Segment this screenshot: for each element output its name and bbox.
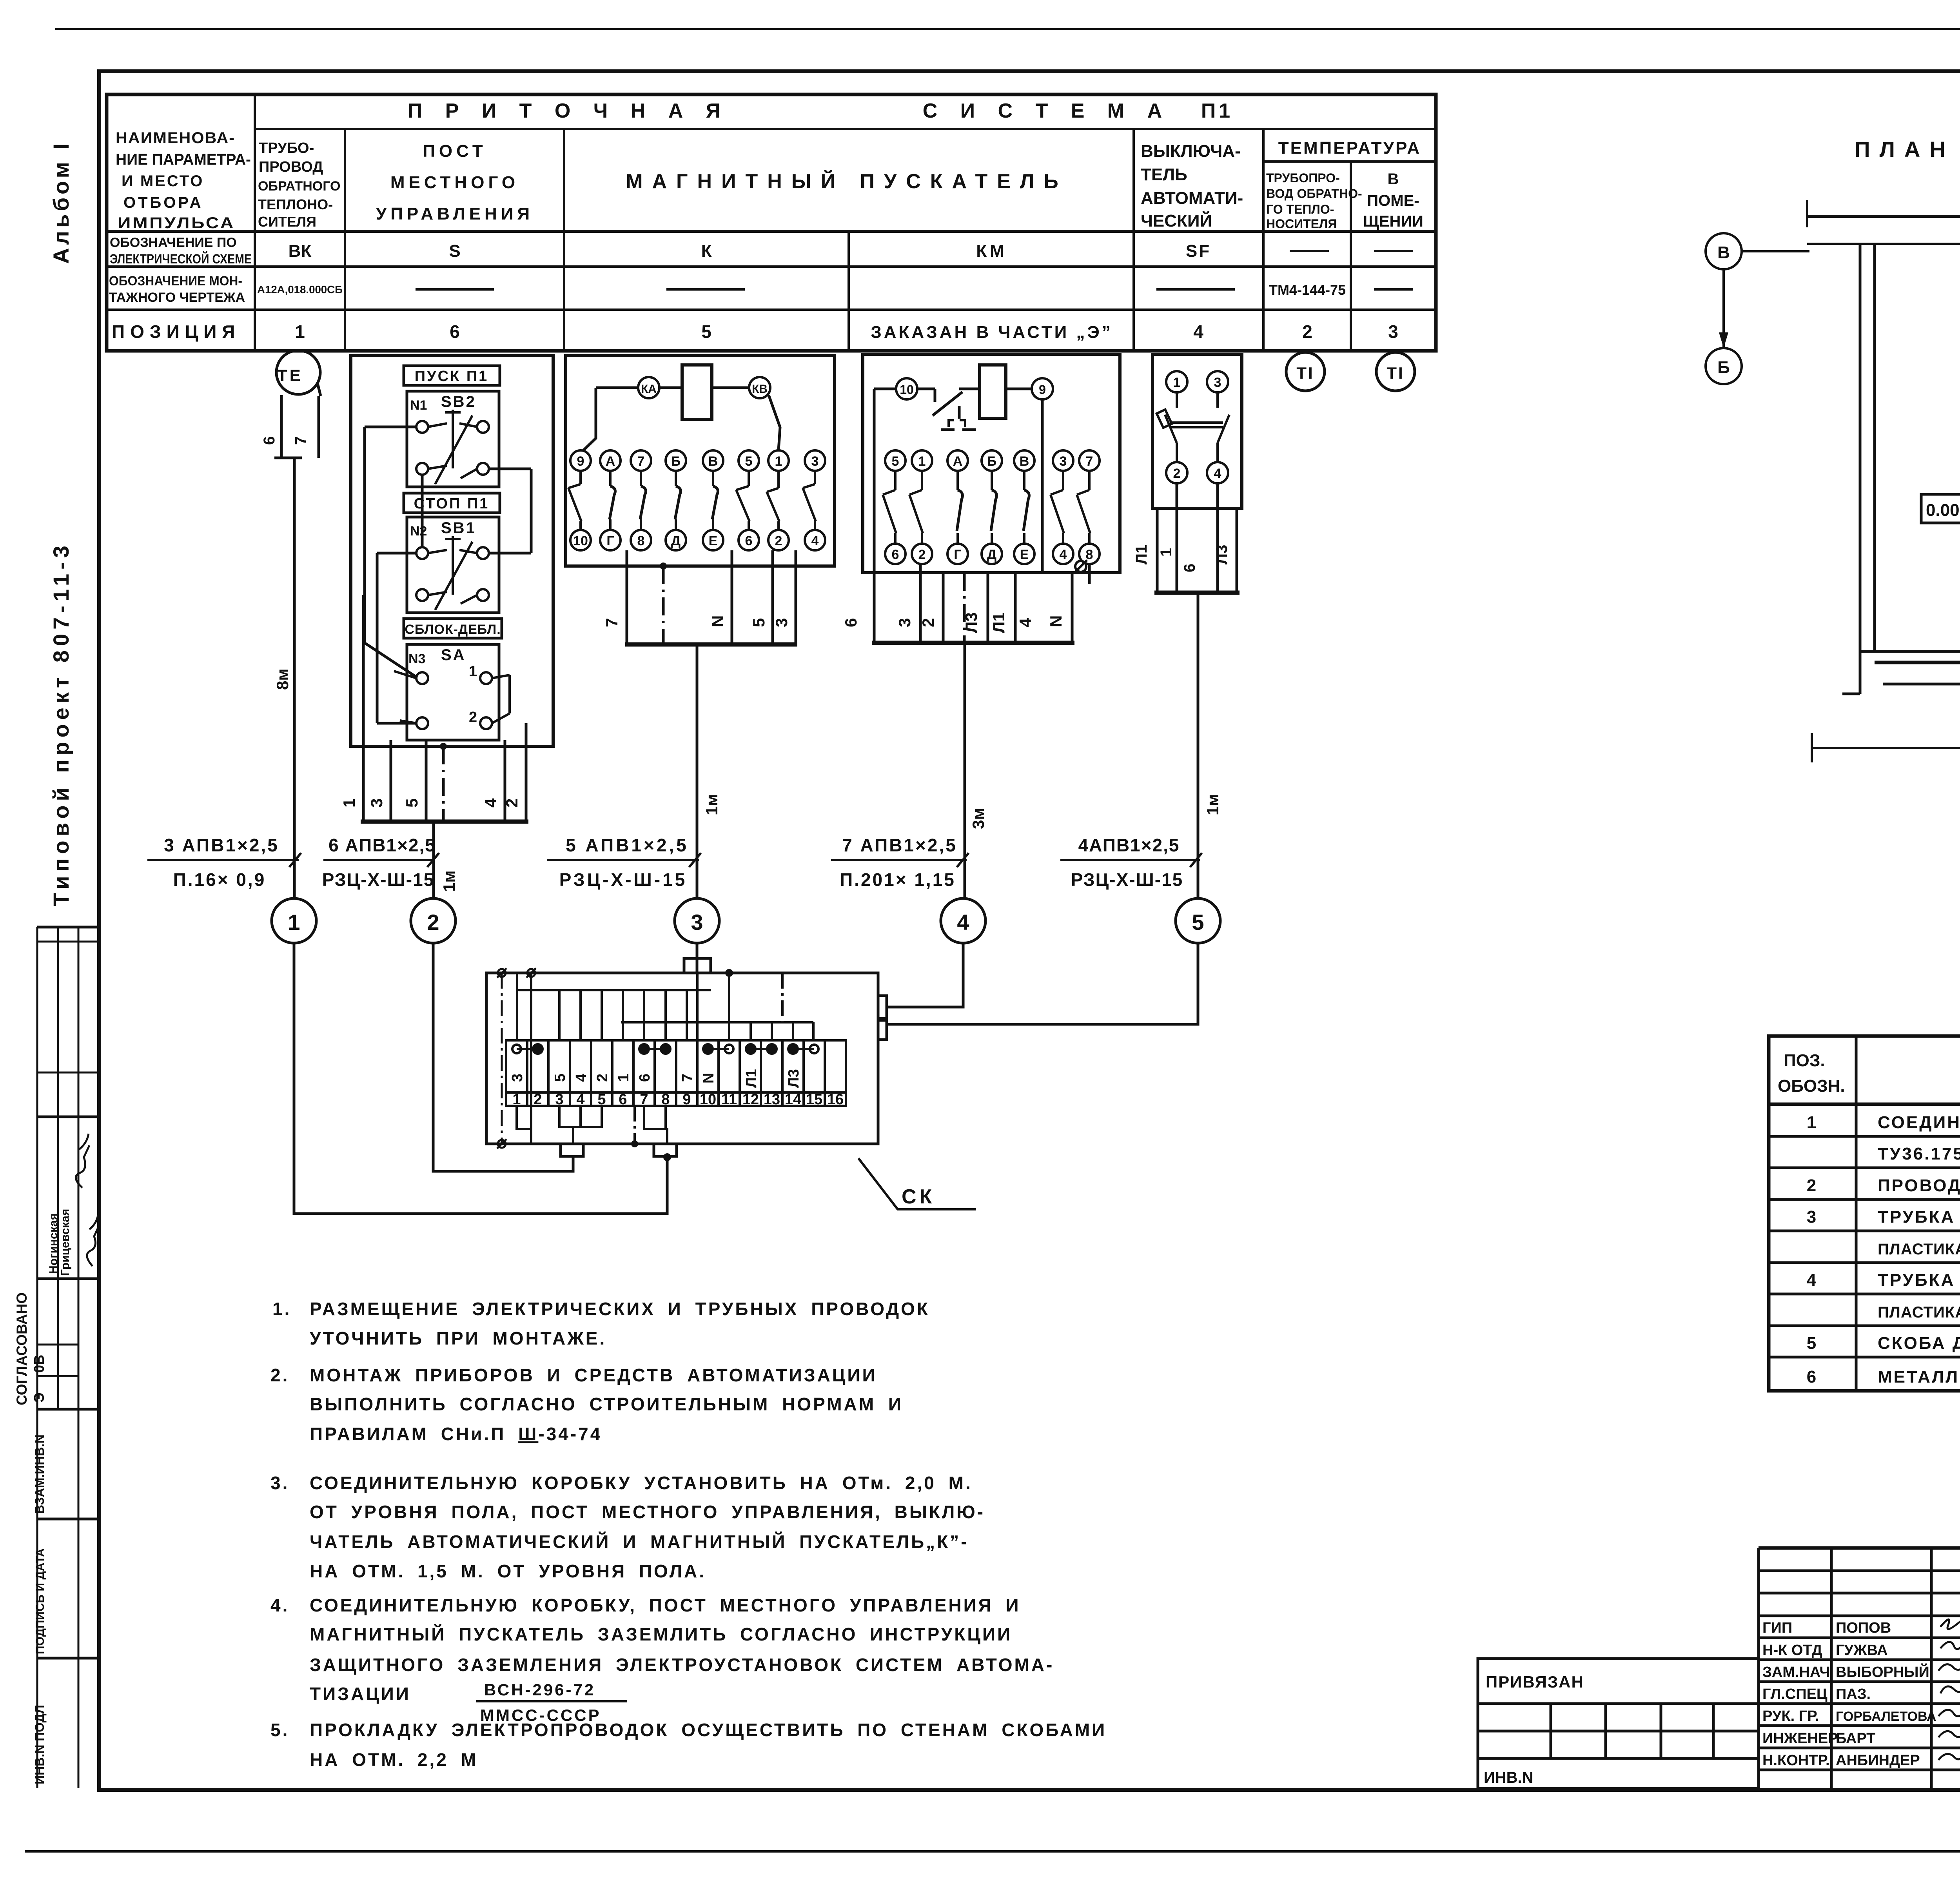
svg-text:ТАЖНОГО ЧЕРТЕЖА: ТАЖНОГО ЧЕРТЕЖА — [109, 290, 245, 305]
internal bus B — [621, 973, 813, 1040]
KM internal left wire — [874, 389, 1089, 643]
sidebar left vertical — [36, 927, 38, 1788]
local control post box — [351, 356, 553, 746]
junction dots CK — [725, 969, 733, 977]
svg-text:2: 2 — [1173, 466, 1181, 481]
svg-text:3: 3 — [555, 1091, 563, 1108]
push button SB2 block — [407, 391, 499, 487]
svg-text:Н-К ОТД: Н-К ОТД — [1762, 1642, 1822, 1659]
instrument TI circle 2 — [1376, 352, 1415, 391]
svg-text:6: 6 — [450, 321, 460, 342]
svg-text:ПЛАСТИКАТА Ш ТВ-40-230-20×1,15: ПЛАСТИКАТА Ш ТВ-40-230-20×1,15 ГОСТ19034… — [1878, 1304, 1960, 1321]
svg-text:КМ: КМ — [976, 241, 1007, 261]
svg-text:А: А — [953, 454, 963, 469]
table horizontal: header2 bottom — [107, 230, 1436, 233]
KA circle — [638, 377, 659, 398]
svg-text:ПРОКЛАДКУ ЭЛЕКТРОПРОВОДОК ОС: ПРОКЛАДКУ ЭЛЕКТРОПРОВОДОК ОСУЩЕСТВИТЬ ПО… — [310, 1720, 1107, 1740]
svg-text:АВТОМАТИ-: АВТОМАТИ- — [1141, 189, 1243, 208]
svg-text:2: 2 — [503, 798, 521, 808]
row B — [109, 274, 1346, 305]
svg-text:К: К — [701, 241, 712, 261]
terminal numbers 1-16 — [512, 1091, 844, 1108]
svg-text:ПЛАСТИКАТА Ш ТВ-40-230-16×0,9Г: ПЛАСТИКАТА Ш ТВ-40-230-16×0,9ГОСТ19034-7… — [1878, 1241, 1960, 1258]
svg-text:5: 5 — [552, 1074, 568, 1082]
svg-text:Д: Д — [987, 547, 996, 562]
svg-text:15: 15 — [806, 1091, 822, 1108]
border: outer thin top line — [55, 28, 1960, 30]
svg-text:1м: 1м — [440, 871, 458, 892]
svg-text:3: 3 — [509, 1074, 526, 1082]
svg-text:4: 4 — [576, 1091, 584, 1108]
svg-text:5 АПВ1×2,5: 5 АПВ1×2,5 — [566, 835, 689, 855]
svg-text:И МЕСТО: И МЕСТО — [122, 172, 204, 190]
svg-text:МАГНИТНЫЙ ПУСКАТЕЛЬ ЗАЗЕМЛИТ: МАГНИТНЫЙ ПУСКАТЕЛЬ ЗАЗЕМЛИТЬ СОГЛАСНО И… — [310, 1624, 1012, 1644]
svg-text:Е: Е — [1020, 547, 1029, 562]
svg-text:Н.КОНТР.: Н.КОНТР. — [1762, 1752, 1830, 1769]
svg-text:3.: 3. — [270, 1473, 289, 1493]
circle 9 (KM) — [1032, 378, 1053, 399]
svg-text:ТРУБКА ИЗ ПОЛИВИНИЛХЛОРИДНОГО: ТРУБКА ИЗ ПОЛИВИНИЛХЛОРИДНОГО — [1878, 1207, 1960, 1227]
svg-text:7: 7 — [603, 618, 621, 627]
svg-text:2: 2 — [534, 1091, 542, 1108]
svg-text:МЕТАЛЛОРУКАВ РЗЦ-Х-Ш-15 ТУ22-: МЕТАЛЛОРУКАВ РЗЦ-Х-Ш-15 ТУ22-3988-77 — [1878, 1367, 1960, 1386]
node circle 3 — [675, 898, 719, 943]
magnetic starter K box — [566, 356, 835, 566]
contact column 3/4 — [805, 450, 825, 471]
cable 1 label — [147, 853, 301, 867]
svg-text:4: 4 — [957, 910, 969, 935]
K box contact numbers — [573, 454, 818, 548]
SF terminals — [1157, 371, 1229, 483]
svg-text:6: 6 — [637, 1074, 653, 1082]
svg-text:1: 1 — [918, 454, 926, 469]
svg-text:П Р И Т О Ч Н А Я: П Р И Т О Ч Н А Я — [408, 100, 729, 122]
svg-text:П1: П1 — [1201, 100, 1233, 122]
contact column 7/8 — [631, 450, 651, 471]
svg-text:10: 10 — [700, 1091, 716, 1108]
instrument TI circle 1 — [1286, 352, 1325, 391]
row C — [112, 321, 1398, 342]
svg-text:СОЕДИНИТЕЛЬНАЯ КОРОБКА КСК-16: СОЕДИНИТЕЛЬНАЯ КОРОБКА КСК-16 — [1878, 1113, 1960, 1132]
wire SF to cable 5 — [1197, 593, 1200, 898]
sidebar divider vertical 1 — [57, 927, 59, 1409]
svg-text:Б: Б — [671, 454, 681, 469]
svg-text:Л3: Л3 — [1213, 545, 1230, 564]
svg-text:1м: 1м — [702, 794, 721, 815]
svg-text:N2: N2 — [410, 524, 427, 539]
svg-text:7: 7 — [679, 1074, 696, 1082]
svg-text:12: 12 — [742, 1091, 759, 1108]
sensor TE — [274, 350, 321, 458]
SF bus — [1154, 591, 1240, 595]
svg-text:ИНЖЕНЕР: ИНЖЕНЕР — [1762, 1730, 1838, 1747]
svg-text:2: 2 — [775, 534, 782, 548]
svg-text:ТУ36.1753-75: ТУ36.1753-75 — [1878, 1144, 1960, 1163]
svg-text:3м: 3м — [969, 808, 987, 829]
svg-text:Л1: Л1 — [1133, 545, 1150, 564]
svg-text:4: 4 — [1016, 618, 1034, 627]
svg-text:6: 6 — [1807, 1367, 1818, 1386]
table outer — [107, 94, 1436, 351]
cable 3 label — [547, 853, 701, 867]
contact column 1/2 — [768, 450, 789, 471]
svg-text:В: В — [708, 454, 718, 469]
border: bottom thin line — [25, 1850, 1960, 1853]
table verticals — [254, 94, 256, 351]
svg-text:N: N — [1047, 615, 1065, 627]
svg-text:3: 3 — [1388, 321, 1398, 342]
wire 5 below circle — [887, 943, 1198, 1024]
svg-text:РАЗМЕЩЕНИЕ ЭЛЕКТРИЧЕСКИХ И Т: РАЗМЕЩЕНИЕ ЭЛЕКТРИЧЕСКИХ И ТРУБНЫХ ПРОВО… — [310, 1299, 930, 1319]
svg-text:2: 2 — [919, 618, 937, 627]
svg-text:3: 3 — [691, 910, 703, 935]
switch SA block — [407, 644, 499, 740]
svg-text:ПРОВОД АПВ1×2,5 ГОСТ 6323-71: ПРОВОД АПВ1×2,5 ГОСТ 6323-71 — [1878, 1176, 1960, 1195]
svg-text:ОБОЗНАЧЕНИЕ ПО: ОБОЗНАЧЕНИЕ ПО — [110, 235, 237, 250]
svg-text:5: 5 — [750, 618, 768, 627]
svg-text:3 АПВ1×2,5: 3 АПВ1×2,5 — [164, 835, 279, 855]
KB circle — [749, 377, 770, 398]
svg-text:АНБИНДЕР: АНБИНДЕР — [1836, 1752, 1920, 1769]
contact column 5/6 KM — [885, 450, 906, 471]
svg-text:РЗЦ-Х-Ш-15: РЗЦ-Х-Ш-15 — [322, 869, 435, 890]
svg-text:6: 6 — [892, 547, 899, 562]
svg-text:ЩЕНИИ: ЩЕНИИ — [1363, 213, 1423, 230]
svg-text:6: 6 — [619, 1091, 627, 1108]
grid bubble B — [1706, 348, 1742, 384]
KM box contact numbers — [892, 454, 1093, 562]
sidebar signatures — [76, 1134, 99, 1266]
svg-text:N: N — [708, 615, 727, 627]
circuit breaker SF box — [1152, 354, 1242, 508]
svg-text:ТЕЛЬ: ТЕЛЬ — [1141, 165, 1187, 184]
svg-text:5: 5 — [1192, 910, 1204, 935]
svg-text:10: 10 — [900, 383, 914, 397]
svg-text:9: 9 — [1039, 383, 1046, 397]
node circle 5 — [1176, 898, 1220, 943]
svg-text:SB2: SB2 — [441, 393, 476, 410]
svg-text:ПРИВЯЗАН: ПРИВЯЗАН — [1486, 1673, 1584, 1691]
svg-text:2: 2 — [427, 910, 439, 935]
svg-text:ГО ТЕПЛО-: ГО ТЕПЛО- — [1266, 202, 1334, 216]
wire 4 below circle — [887, 943, 963, 1007]
svg-text:Грицевская: Грицевская — [59, 1209, 72, 1276]
svg-text:ИМПУЛЬСА: ИМПУЛЬСА — [118, 214, 235, 232]
svg-text:Л1: Л1 — [989, 612, 1008, 633]
right connector 1 — [878, 996, 887, 1018]
wire 2 below circle — [433, 943, 573, 1171]
svg-text:СТОП П1: СТОП П1 — [414, 495, 490, 512]
sidebar divider vertical 2 — [78, 927, 80, 1788]
svg-text:SA: SA — [441, 646, 466, 664]
svg-text:РЗЦ-Х-Ш-15: РЗЦ-Х-Ш-15 — [1071, 869, 1183, 890]
contact column 3/4 KM — [1053, 450, 1073, 471]
svg-text:3: 3 — [1060, 454, 1067, 469]
svg-text:СКОБА ДВУХЛАПКОВАЯ СО-22ТУ36.: СКОБА ДВУХЛАПКОВАЯ СО-22ТУ36.1086-76 — [1878, 1334, 1960, 1353]
wire 1 below circle — [294, 943, 667, 1214]
svg-text:Д: Д — [671, 534, 681, 548]
SB1 terminals and contact — [416, 536, 489, 610]
coil leads — [583, 388, 780, 450]
svg-text:3: 3 — [367, 798, 386, 808]
svg-text:СБЛОК-ДЕБЛ.: СБЛОК-ДЕБЛ. — [405, 622, 501, 637]
wire 3 below circle — [696, 943, 699, 973]
SB2 terminals and contact — [416, 410, 489, 484]
svg-text:4: 4 — [1214, 466, 1221, 481]
node circle 4 — [941, 898, 985, 943]
earth symbols on CK — [497, 968, 536, 1149]
svg-text:ЗАЩИТНОГО ЗАЗЕМЛЕНИЯ ЭЛЕКТРО: ЗАЩИТНОГО ЗАЗЕМЛЕНИЯ ЭЛЕКТРОУСТАНОВОК СИ… — [310, 1655, 1054, 1675]
svg-text:4: 4 — [1060, 547, 1067, 562]
svg-text:5: 5 — [701, 321, 711, 342]
svg-text:КВ: КВ — [752, 383, 768, 396]
svg-text:2: 2 — [1807, 1176, 1818, 1195]
svg-text:5: 5 — [403, 798, 421, 808]
signature rows text — [1762, 1620, 1936, 1769]
svg-text:3: 3 — [895, 618, 914, 627]
svg-text:5: 5 — [745, 454, 753, 469]
svg-text:4: 4 — [811, 534, 819, 548]
SA terminals and contacts — [394, 671, 510, 729]
svg-text:0.000: 0.000 — [1926, 501, 1960, 520]
svg-text:ТI: ТI — [1387, 364, 1404, 382]
svg-text:4: 4 — [1193, 321, 1203, 342]
wire K box to cable 3 — [696, 644, 699, 898]
svg-text:НА ОТМ. 2,2 М: НА ОТМ. 2,2 М — [310, 1749, 478, 1770]
grid line from V — [1742, 250, 1809, 252]
svg-text:РУК. ГР.: РУК. ГР. — [1762, 1708, 1819, 1724]
contact column 5/6 — [739, 450, 759, 471]
svg-text:ПРАВИЛАМ СНи.П Ш-34-74: ПРАВИЛАМ СНи.П Ш-34-74 — [310, 1424, 602, 1444]
svg-text:5: 5 — [597, 1091, 606, 1108]
svg-text:П.201× 1,15: П.201× 1,15 — [840, 869, 956, 890]
label box PUSK P1 — [404, 366, 500, 385]
svg-text:ТИЗАЦИИ: ТИЗАЦИИ — [310, 1684, 411, 1704]
svg-text:УТОЧНИТЬ ПРИ МОНТАЖЕ.: УТОЧНИТЬ ПРИ МОНТАЖЕ. — [310, 1328, 606, 1348]
svg-text:6: 6 — [1181, 564, 1198, 572]
cable 5 label — [1060, 853, 1202, 867]
jumper 14-15 — [788, 1044, 818, 1054]
partition wall — [1860, 643, 1960, 684]
svg-text:8: 8 — [637, 534, 645, 548]
contact column 9/10 — [570, 450, 591, 471]
circle 10 (KM) — [896, 378, 917, 399]
contact column V/E KM — [1014, 450, 1034, 471]
contact column V/E — [703, 450, 723, 471]
svg-text:СИТЕЛЯ: СИТЕЛЯ — [258, 214, 316, 230]
privyazan box — [1478, 1659, 1759, 1788]
svg-text:ПЛАН ВЕНТКАМЕРЫ: ПЛАН ВЕНТКАМЕРЫ — [1854, 137, 1960, 162]
svg-text:2: 2 — [469, 709, 477, 726]
svg-text:Альбом I: Альбом I — [49, 140, 73, 264]
internal bus A — [517, 973, 711, 1040]
svg-text:КА: КА — [641, 383, 657, 396]
svg-text:8: 8 — [661, 1091, 670, 1108]
plan bottom boundary — [1812, 721, 1960, 762]
svg-text:СОЕДИНИТЕЛЬНУЮ КОРОБКУ УСТАН: СОЕДИНИТЕЛЬНУЮ КОРОБКУ УСТАНОВИТЬ НА ОТм… — [310, 1473, 973, 1493]
svg-text:Ногинская: Ногинская — [47, 1213, 60, 1274]
label CK with leader — [858, 1158, 976, 1209]
svg-text:В: В — [1388, 171, 1399, 188]
svg-text:N: N — [701, 1073, 717, 1083]
svg-text:ТЕПЛОНО-: ТЕПЛОНО- — [258, 196, 333, 212]
wires below K box — [625, 550, 797, 898]
signatures scribbles — [1938, 1619, 1960, 1760]
svg-text:МАГНИТНЫЙ ПУСКАТЕЛЬ: МАГНИТНЫЙ ПУСКАТЕЛЬ — [626, 170, 1068, 193]
svg-text:10: 10 — [573, 534, 588, 548]
svg-text:N3: N3 — [408, 651, 425, 666]
svg-text:7: 7 — [637, 454, 645, 469]
svg-text:3: 3 — [1214, 375, 1221, 390]
svg-text:ТЕ: ТЕ — [277, 366, 303, 385]
cable 4 label — [831, 853, 969, 867]
KM bus — [872, 641, 1074, 645]
bottom bus of control post — [361, 820, 528, 824]
level mark 0.000 — [1921, 494, 1960, 523]
row A — [110, 235, 1211, 267]
svg-text:ПОСТ: ПОСТ — [423, 142, 486, 161]
grid arrow V to B — [1722, 269, 1725, 348]
svg-text:N1: N1 — [410, 398, 427, 413]
svg-text:Б: Б — [987, 454, 996, 469]
svg-text:ТI: ТI — [1296, 364, 1314, 382]
svg-text:1: 1 — [775, 454, 782, 469]
svg-text:3: 3 — [1807, 1207, 1818, 1227]
svg-text:SB1: SB1 — [441, 519, 476, 537]
signature table — [1759, 1546, 1960, 1550]
jumper 12-13 — [746, 1044, 777, 1054]
jumper 1-2 — [512, 1044, 543, 1054]
svg-text:УПРАВЛЕНИЯ: УПРАВЛЕНИЯ — [376, 204, 534, 223]
table horizontal: header1 bottom — [255, 128, 1436, 130]
svg-text:4: 4 — [1807, 1270, 1818, 1290]
svg-text:5: 5 — [1807, 1334, 1818, 1353]
svg-text:Г: Г — [606, 534, 614, 548]
svg-text:7 АПВ1×2,5: 7 АПВ1×2,5 — [842, 835, 957, 855]
svg-text:Л3: Л3 — [962, 612, 980, 633]
KM box contacts — [883, 450, 1100, 564]
svg-text:Г: Г — [954, 547, 961, 562]
svg-text:ПОДПИСЬ И ДАТА: ПОДПИСЬ И ДАТА — [34, 1548, 47, 1654]
svg-text:С И С Т Е М А: С И С Т Е М А — [923, 100, 1171, 122]
KM ground symbol at 8 — [1074, 560, 1087, 573]
svg-text:НА ОТМ. 1,5 М. ОТ УРОВНЯ: НА ОТМ. 1,5 М. ОТ УРОВНЯ ПОЛА. — [310, 1561, 706, 1581]
svg-text:ТМ4-144-75: ТМ4-144-75 — [1269, 282, 1346, 298]
svg-text:ГЛ.СПЕЦ: ГЛ.СПЕЦ — [1762, 1686, 1828, 1702]
svg-text:ГУЖВА: ГУЖВА — [1836, 1642, 1888, 1659]
svg-text:ГИП: ГИП — [1762, 1620, 1792, 1636]
svg-text:5: 5 — [892, 454, 899, 469]
svg-text:ГОРБАЛЕТОВА: ГОРБАЛЕТОВА — [1836, 1709, 1936, 1724]
wires below KM box — [872, 564, 1074, 898]
svg-text:РЗЦ-Х-Ш-15: РЗЦ-Х-Ш-15 — [559, 869, 688, 890]
cable 2 label — [323, 853, 439, 867]
svg-text:ВЗАМ.ИНВ.N: ВЗАМ.ИНВ.N — [33, 1434, 47, 1514]
node circle 1 — [272, 898, 316, 943]
wire from TE down to cable 1 — [293, 458, 296, 898]
label box STOP P1 — [404, 493, 500, 513]
svg-text:7: 7 — [1086, 454, 1093, 469]
svg-text:13: 13 — [764, 1091, 780, 1108]
terminal box CK outline — [486, 958, 887, 1156]
svg-text:Б: Б — [1717, 358, 1730, 377]
svg-text:БАРТ: БАРТ — [1836, 1730, 1875, 1747]
svg-text:ТЕМПЕРАТУРА: ТЕМПЕРАТУРА — [1278, 138, 1421, 158]
svg-text:ТРУБО-: ТРУБО- — [259, 140, 314, 156]
grid bubble V — [1706, 233, 1742, 269]
svg-text:1.: 1. — [272, 1299, 291, 1319]
svg-text:ПОМЕ-: ПОМЕ- — [1367, 192, 1419, 209]
svg-text:ЧАТЕЛЬ АВТОМАТИЧЕСКИЙ И МАГ: ЧАТЕЛЬ АВТОМАТИЧЕСКИЙ И МАГНИТНЫЙ ПУСКАТ… — [310, 1532, 969, 1552]
svg-text:2: 2 — [918, 547, 926, 562]
row B dashes — [416, 288, 1413, 291]
svg-text:7: 7 — [640, 1091, 648, 1108]
svg-text:ВЫПОЛНИТЬ СОГЛАСНО СТРОИТЕЛЬ: ВЫПОЛНИТЬ СОГЛАСНО СТРОИТЕЛЬНЫМ НОРМАМ И — [310, 1394, 903, 1414]
svg-text:ПРОВОД: ПРОВОД — [259, 159, 323, 175]
svg-text:СОГЛАСОВАНО: СОГЛАСОВАНО — [14, 1292, 30, 1405]
svg-text:9: 9 — [682, 1091, 691, 1108]
svg-text:ИНВ.N ПОДЛ: ИНВ.N ПОДЛ — [33, 1705, 47, 1784]
svg-text:СОЕДИНИТЕЛЬНУЮ КОРОБКУ, ПОСТ: СОЕДИНИТЕЛЬНУЮ КОРОБКУ, ПОСТ МЕСТНОГО УП… — [310, 1595, 1021, 1615]
svg-text:14: 14 — [785, 1091, 801, 1108]
svg-text:3: 3 — [772, 618, 791, 627]
svg-text:МОНТАЖ ПРИБОРОВ И СРЕДСТВ: МОНТАЖ ПРИБОРОВ И СРЕДСТВ АВТОМАТИЗАЦИИ — [310, 1365, 877, 1385]
contact column B/D KM — [982, 450, 1002, 471]
svg-text:1: 1 — [1173, 375, 1181, 390]
contact column A/G KM — [947, 450, 968, 471]
table horizontal: temperature label bottom — [1263, 160, 1436, 163]
svg-text:ТРУБОПРО-: ТРУБОПРО- — [1266, 171, 1340, 185]
table header text — [116, 100, 1423, 232]
jumper 10-11 — [703, 1044, 733, 1054]
svg-text:А: А — [606, 454, 615, 469]
svg-text:ВЫКЛЮЧА-: ВЫКЛЮЧА- — [1141, 142, 1241, 161]
svg-text:9: 9 — [577, 454, 584, 469]
svg-text:1: 1 — [288, 910, 300, 935]
left wall — [1842, 244, 1875, 694]
wires below control post — [361, 595, 528, 898]
svg-text:ПОПОВ: ПОПОВ — [1836, 1620, 1891, 1636]
jumper 7-8 — [639, 1044, 670, 1054]
fraction bar VSN — [476, 1700, 627, 1702]
svg-text:СК: СК — [902, 1185, 935, 1208]
svg-text:Л1: Л1 — [743, 1069, 760, 1088]
svg-text:8: 8 — [1086, 547, 1093, 562]
svg-text:ОТ УРОВНЯ ПОЛА, ПОСТ МЕСТН: ОТ УРОВНЯ ПОЛА, ПОСТ МЕСТНОГО УПРАВЛЕНИЯ… — [310, 1502, 985, 1522]
svg-text:Л3: Л3 — [786, 1069, 802, 1088]
push button SB1 block — [407, 517, 499, 613]
svg-text:НОСИТЕЛЯ: НОСИТЕЛЯ — [1266, 217, 1337, 231]
node circle 2 — [411, 898, 456, 943]
contact column B/D — [666, 450, 686, 471]
svg-text:В: В — [1717, 243, 1730, 262]
bottom notch 1 — [561, 1144, 583, 1156]
svg-text:НИЕ ПАРАМЕТРА-: НИЕ ПАРАМЕТРА- — [116, 151, 251, 168]
coil K — [682, 365, 712, 419]
magnetic starter KM box — [863, 354, 1120, 573]
svg-text:ИНВ.N: ИНВ.N — [1484, 1769, 1534, 1786]
sidebar horizontal lines — [37, 926, 99, 929]
svg-text:S: S — [449, 241, 460, 261]
svg-text:1: 1 — [340, 798, 358, 808]
svg-text:6 АПВ1×2,5: 6 АПВ1×2,5 — [328, 835, 436, 855]
svg-text:ПОЗ.: ПОЗ. — [1784, 1051, 1825, 1070]
terminal strip — [506, 1040, 846, 1106]
row A dashes — [1290, 250, 1413, 252]
svg-text:SF: SF — [1186, 241, 1211, 261]
svg-text:ПУСК П1: ПУСК П1 — [415, 368, 489, 385]
svg-text:8м: 8м — [273, 669, 292, 690]
